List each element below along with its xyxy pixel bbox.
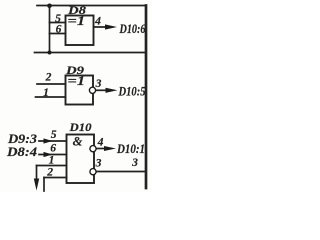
svg-text:1: 1 [43,86,49,99]
svg-text:D10:6: D10:6 [119,22,147,36]
svg-text:D10:1: D10:1 [116,142,145,156]
svg-text:2: 2 [46,166,53,179]
wire top horizontal net [37,5,146,7]
wire D10 pin1 input [37,165,67,167]
svg-text:D10: D10 [68,122,91,134]
svg-text:2: 2 [45,71,52,84]
wire D10 output pin3 [97,171,146,173]
wire left bus vertical [49,6,51,53]
bubble D9 output [89,87,95,93]
svg-text:D8:4: D8:4 [6,145,37,159]
op box D8 [66,16,94,46]
wire D9 output pin3 [96,89,110,91]
wire D10 pin2 down lead [43,178,45,192]
svg-text:&: & [73,135,83,149]
svg-text:4: 4 [97,136,104,149]
wire D9 pin2 [37,83,66,85]
wire D10 output pin4 [97,148,109,150]
svg-text:=1: =1 [68,14,86,28]
node junction top [47,4,52,9]
wire D10 pin1 down lead [36,166,38,181]
arrow D10 pin5 input [44,138,53,143]
node junction mid [48,51,52,55]
wire D8 pin5 [50,22,66,24]
op box D10 [67,135,95,184]
svg-text:6: 6 [56,23,62,36]
svg-text:4: 4 [94,15,101,28]
arrow D10 pin6 input [44,152,53,157]
svg-text:D10:5: D10:5 [118,85,146,99]
bubble D10 output pin3 [90,169,96,175]
svg-text:3: 3 [95,77,102,90]
wire right border vertical [145,6,148,189]
wire D8 pin6 [50,33,66,35]
arrow D10 pin1 down [34,179,39,191]
svg-text:5: 5 [51,128,57,141]
arrow D10 output pin4 [104,146,116,151]
wire D9 pin1 [36,96,66,98]
bubble D10 output pin4 [90,146,96,152]
op box D9 [66,76,94,105]
wire D10 pin6 input [39,154,67,156]
svg-text:=1: =1 [68,74,86,88]
svg-text:3: 3 [95,157,102,170]
wire D8 output pin4 [94,26,111,28]
wire D10 pin2 input [44,177,67,179]
arrow D8 output [105,24,117,29]
svg-text:3: 3 [131,156,138,169]
wire mid horizontal [35,52,146,54]
arrow D9 output [106,88,118,93]
svg-text:D9:3: D9:3 [7,132,37,146]
wire D10 pin5 input [39,140,67,142]
